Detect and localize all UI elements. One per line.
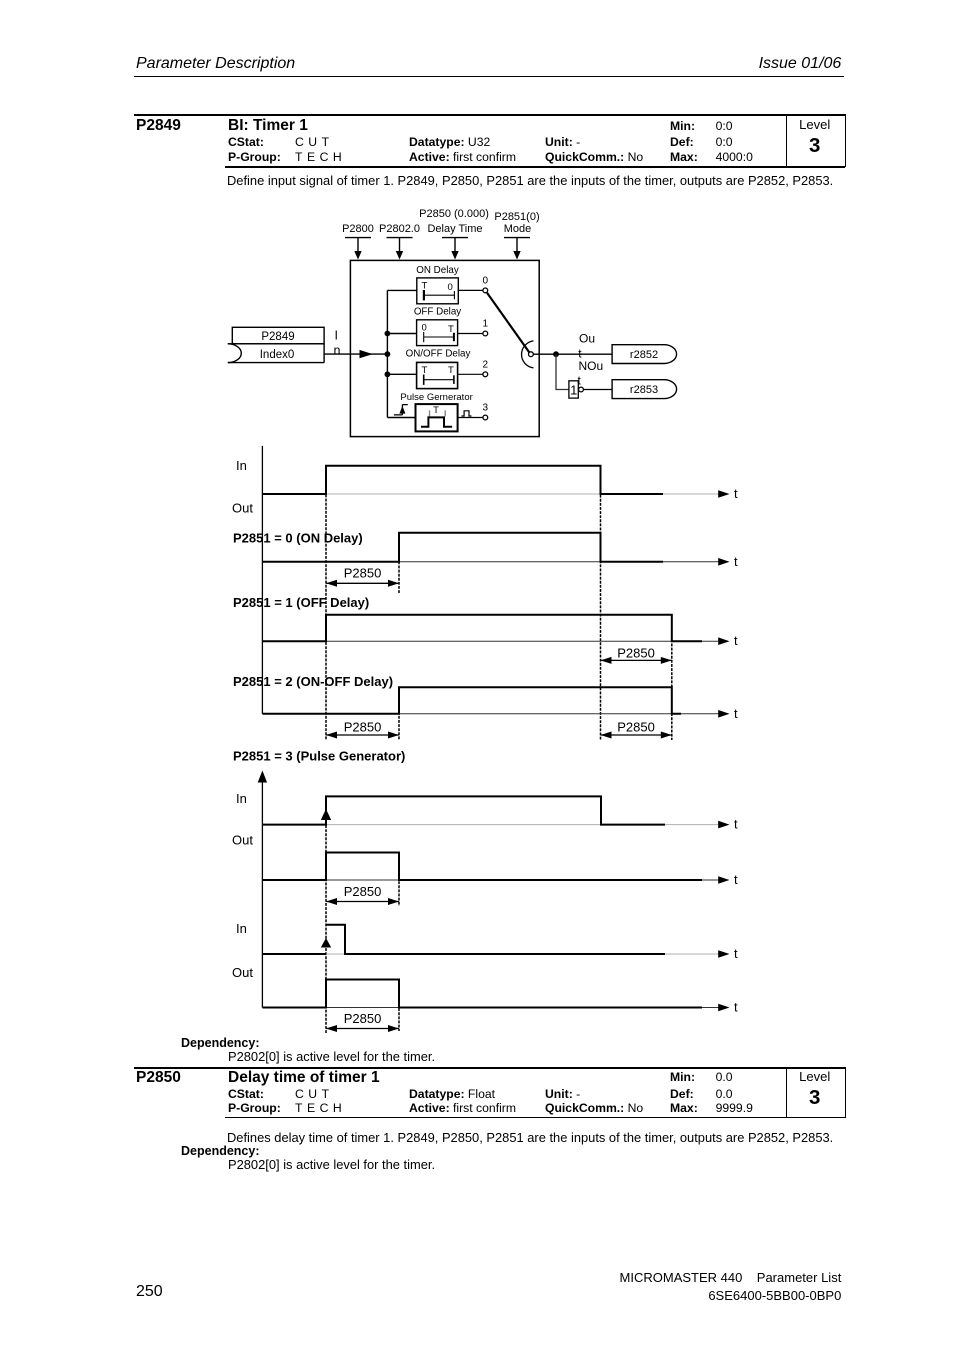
row CStat bbox=[228, 136, 264, 148]
svg-text:t: t bbox=[734, 633, 738, 648]
svg-text:Mode: Mode bbox=[504, 223, 532, 235]
svg-text:P2851(0): P2851(0) bbox=[494, 211, 539, 223]
block Pulse Generator bbox=[416, 404, 458, 431]
axis arrow Out p2 bbox=[718, 1004, 729, 1012]
svg-text:0: 0 bbox=[483, 276, 489, 287]
datatype bbox=[409, 136, 490, 148]
svg-text:t: t bbox=[734, 554, 738, 569]
svg-text:r2853: r2853 bbox=[630, 384, 658, 396]
svg-text:In: In bbox=[236, 921, 247, 936]
svg-text:NOu: NOu bbox=[579, 359, 604, 373]
contact 2 bbox=[483, 372, 488, 377]
axis arrow row ON bbox=[718, 558, 729, 566]
wire Pulse Gen to contact 3 bbox=[458, 417, 483, 419]
svg-text:T: T bbox=[448, 365, 454, 376]
svg-text:I: I bbox=[335, 329, 338, 343]
description line bbox=[227, 175, 833, 188]
dotted line pulse rise bbox=[325, 796, 327, 1033]
dotted line delayed fall bbox=[671, 615, 673, 740]
dim arrow ON bbox=[326, 580, 399, 587]
svg-text:Index0: Index0 bbox=[260, 349, 295, 361]
block OFF Delay bbox=[417, 320, 458, 346]
edge trigger glyph bbox=[394, 405, 408, 415]
wire to inverter bbox=[556, 354, 569, 389]
table top border bbox=[134, 1067, 845, 1069]
svg-text:P2851 = 0 (ON Delay): P2851 = 0 (ON Delay) bbox=[233, 531, 363, 546]
axis row ONOFF bbox=[262, 713, 728, 715]
switch common contact bbox=[529, 352, 534, 357]
timer main box bbox=[350, 260, 539, 436]
node off-delay junction bbox=[385, 331, 391, 337]
wire OFF Delay to contact 1 bbox=[458, 333, 483, 335]
axis In p1 bbox=[262, 824, 728, 826]
table top border bbox=[134, 114, 845, 116]
svg-text:ON/OFF Delay: ON/OFF Delay bbox=[406, 349, 471, 360]
waveform Out p1 bbox=[262, 853, 702, 881]
svg-text:t: t bbox=[734, 486, 738, 501]
header left bbox=[136, 56, 295, 72]
svg-text:P2850: P2850 bbox=[617, 646, 655, 661]
footer doc number bbox=[708, 1289, 841, 1302]
trigger arrow p1 bbox=[321, 809, 331, 820]
svg-text:P2800: P2800 bbox=[342, 223, 374, 235]
contact 1 bbox=[483, 331, 488, 336]
svg-text:Out: Out bbox=[232, 965, 253, 980]
svg-text:Ou: Ou bbox=[579, 332, 595, 346]
connector P2850 bbox=[442, 238, 468, 260]
node input junction bbox=[385, 351, 391, 357]
dotted line In fall bbox=[600, 466, 602, 740]
axis arrow row OFF bbox=[718, 637, 729, 645]
svg-text:ON Delay: ON Delay bbox=[416, 265, 459, 276]
param title bbox=[228, 1070, 380, 1086]
table bottom border bbox=[225, 1117, 845, 1118]
axis In row1 bbox=[262, 493, 728, 495]
axis arrow Out p1 bbox=[718, 876, 729, 884]
svg-text:t: t bbox=[734, 706, 738, 721]
arrowhead input bbox=[360, 350, 373, 358]
table bottom border bbox=[225, 166, 845, 167]
dim arrow OFF bbox=[601, 657, 672, 664]
svg-text:Out: Out bbox=[232, 833, 253, 848]
connector r2853 bbox=[612, 380, 677, 399]
svg-text:P2850: P2850 bbox=[344, 720, 382, 735]
dotted line In rise bbox=[325, 466, 327, 740]
axis Out p2 bbox=[262, 1007, 728, 1009]
svg-text:3: 3 bbox=[483, 403, 489, 414]
svg-text:t: t bbox=[734, 817, 738, 832]
wire input bbox=[324, 353, 387, 355]
svg-text:P2850: P2850 bbox=[344, 884, 382, 899]
unit bbox=[545, 136, 580, 148]
connector P2800 bbox=[345, 238, 371, 260]
axis arrow row ONOFF bbox=[718, 710, 729, 718]
wire common output bbox=[533, 353, 612, 355]
contact 3 bbox=[483, 415, 488, 420]
level cell border bbox=[786, 1067, 846, 1118]
quickcomm bbox=[545, 151, 643, 163]
waveform In row1 bbox=[262, 466, 663, 494]
waveform ON-OFF delay bbox=[262, 687, 681, 714]
wire ON Delay to contact 0 bbox=[458, 289, 483, 291]
dotted line delayed rise bbox=[398, 533, 400, 594]
inverter U1 bbox=[569, 381, 583, 398]
wire input bus vertical bbox=[386, 290, 388, 417]
svg-text:t: t bbox=[734, 1000, 738, 1015]
svg-text:P2851 = 2 (ON-OFF Delay): P2851 = 2 (ON-OFF Delay) bbox=[233, 674, 393, 689]
block ON Delay bbox=[417, 278, 459, 304]
waveform In p2 bbox=[262, 925, 665, 954]
axis Out p1 bbox=[262, 879, 728, 881]
header right bbox=[759, 56, 842, 72]
output pulse glyph bbox=[462, 411, 472, 416]
svg-text:T: T bbox=[433, 405, 439, 416]
svg-text:r2852: r2852 bbox=[630, 349, 658, 361]
row P-Group bbox=[228, 151, 281, 163]
wire ON/OFF Delay to contact 2 bbox=[458, 373, 483, 375]
dim arrow ONOFF left bbox=[326, 732, 399, 739]
node onoff-delay junction bbox=[385, 371, 391, 377]
param number P2849 bbox=[136, 118, 181, 134]
waveform OFF delay bbox=[262, 615, 702, 641]
svg-text:Pulse Gernerator: Pulse Gernerator bbox=[400, 392, 472, 403]
svg-text:OFF Delay: OFF Delay bbox=[414, 307, 461, 318]
svg-text:2: 2 bbox=[483, 360, 489, 371]
dim arrow ONOFF right bbox=[601, 732, 672, 739]
wire to Pulse Generator bbox=[387, 417, 415, 419]
active bbox=[409, 151, 516, 163]
axis In p2 bbox=[262, 953, 728, 955]
svg-text:Delay Time: Delay Time bbox=[427, 223, 482, 235]
min def max bbox=[670, 120, 695, 132]
svg-text:P2802.0: P2802.0 bbox=[379, 223, 420, 235]
axis vertical set1 bbox=[261, 446, 263, 714]
level cell border bbox=[786, 114, 846, 167]
svg-text:P2851 = 1 (OFF Delay): P2851 = 1 (OFF Delay) bbox=[233, 595, 369, 610]
svg-text:Out: Out bbox=[232, 501, 253, 516]
connector box P2849 bbox=[228, 327, 324, 362]
dotted line pulse end 2 bbox=[398, 980, 400, 1032]
axis arrow In p2 bbox=[718, 950, 729, 958]
axis row OFF bbox=[262, 640, 728, 642]
svg-text:t: t bbox=[734, 872, 738, 887]
wire to OFF Delay bbox=[387, 333, 416, 335]
dim arrow p2 bbox=[326, 1025, 399, 1032]
waveform ON delay bbox=[262, 533, 663, 562]
block ON/OFF Delay bbox=[417, 362, 458, 388]
dotted line pulse end 1 bbox=[398, 853, 400, 907]
trigger arrow p2 bbox=[321, 938, 331, 948]
svg-text:In: In bbox=[236, 791, 247, 806]
connector P2802.0 bbox=[387, 238, 413, 260]
svg-text:1: 1 bbox=[570, 383, 577, 398]
svg-text:In: In bbox=[236, 458, 247, 473]
switch arc bbox=[522, 341, 534, 368]
param number P2850 bbox=[136, 1070, 181, 1086]
wire inverter to r2853 bbox=[583, 389, 612, 391]
contact 0 bbox=[483, 288, 488, 293]
svg-text:P2849: P2849 bbox=[261, 331, 294, 343]
svg-text:P2850: P2850 bbox=[344, 1011, 382, 1026]
svg-text:P2850 (0.000): P2850 (0.000) bbox=[419, 208, 489, 220]
svg-text:P2850: P2850 bbox=[617, 720, 655, 735]
axis vertical set2 with up arrow bbox=[258, 771, 267, 1008]
footer title bbox=[620, 1271, 842, 1284]
axis arrow In p1 bbox=[718, 821, 729, 829]
waveform Out p2 bbox=[262, 980, 702, 1008]
dim arrow p1 bbox=[326, 898, 399, 905]
svg-text:n: n bbox=[334, 343, 341, 357]
svg-text:P2851 = 3 (Pulse Generator): P2851 = 3 (Pulse Generator) bbox=[233, 749, 405, 764]
param title bbox=[228, 118, 308, 134]
connector P2851 bbox=[504, 238, 530, 260]
wire to ON/OFF Delay bbox=[387, 373, 416, 375]
svg-text:P2850: P2850 bbox=[344, 566, 382, 581]
axis row ON bbox=[262, 561, 728, 563]
node output junction bbox=[553, 351, 559, 357]
switch blade bbox=[487, 293, 529, 352]
waveform In p1 bbox=[262, 796, 665, 824]
description line 2 bbox=[227, 1132, 833, 1145]
level label bbox=[786, 118, 844, 131]
axis arrow row1 bbox=[718, 490, 729, 498]
wire to ON Delay bbox=[387, 289, 416, 291]
svg-text:1: 1 bbox=[483, 319, 489, 330]
svg-text:0: 0 bbox=[448, 282, 453, 293]
header rule bbox=[134, 76, 844, 77]
svg-text:t: t bbox=[734, 946, 738, 961]
connector r2852 bbox=[612, 345, 676, 364]
page number bbox=[136, 1284, 163, 1300]
